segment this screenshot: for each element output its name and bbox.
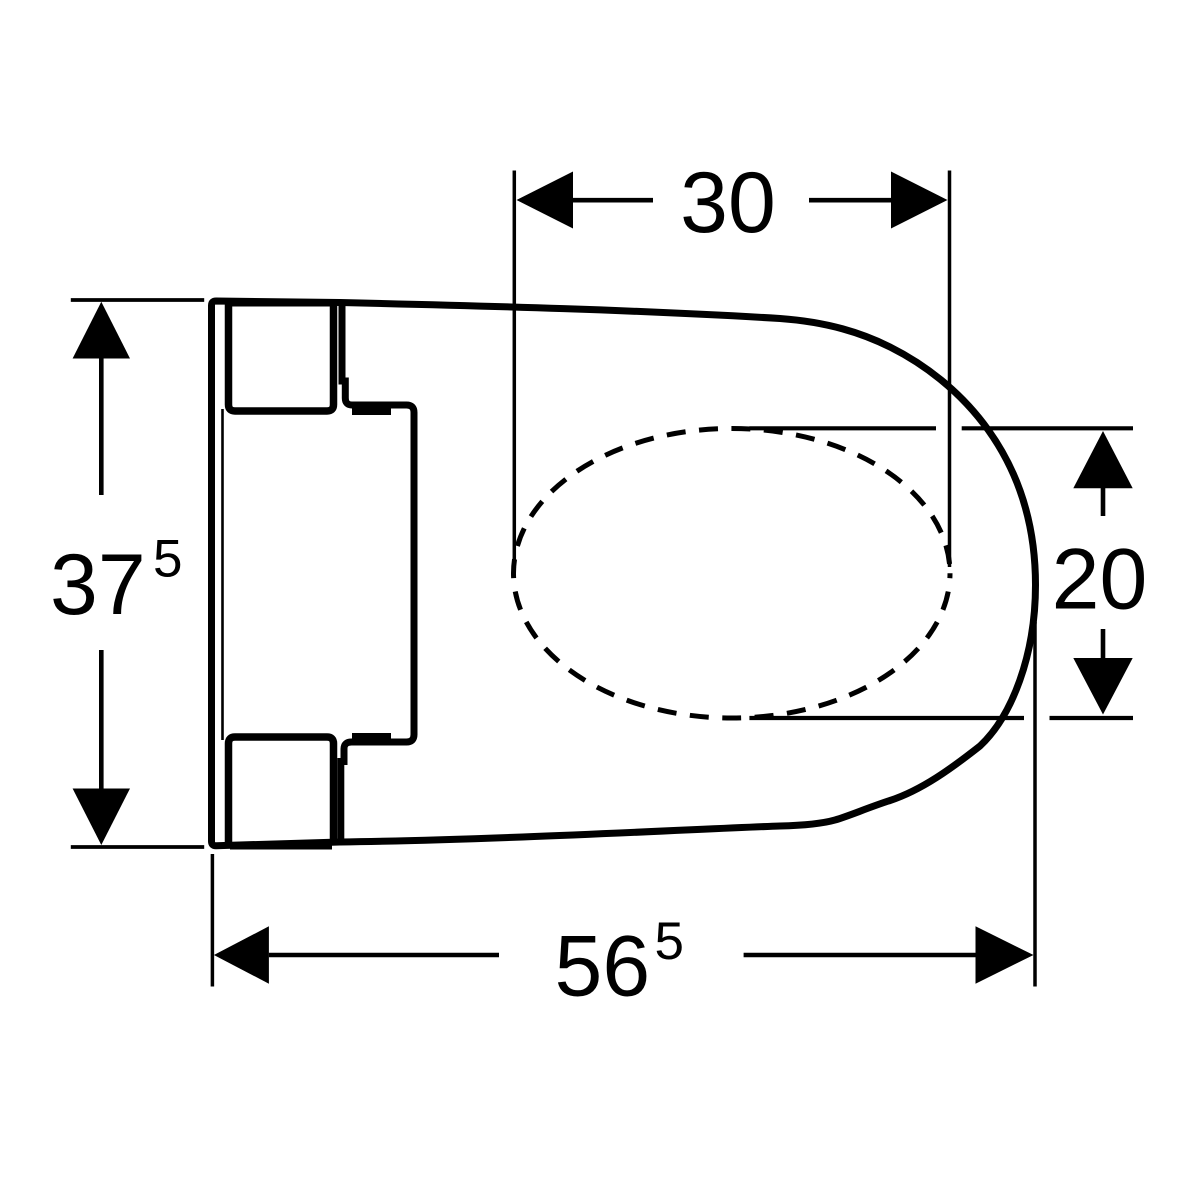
- bowl outline: [212, 301, 1036, 846]
- svg-text:20: 20: [1052, 532, 1148, 628]
- dim 56.5 left tail: [269, 953, 499, 958]
- svg-text:56: 56: [555, 919, 651, 1015]
- dashed bowl ellipse: [514, 429, 951, 719]
- svg-text:37: 37: [50, 537, 146, 633]
- dim 37.5 top extension line: [71, 298, 204, 302]
- dim 20 top line left part: [749, 426, 936, 430]
- dim 30 right arrow: [891, 172, 948, 229]
- svg-text:5: 5: [655, 912, 684, 971]
- dim 37.5 up arrow: [73, 302, 130, 359]
- svg-text:30: 30: [680, 155, 776, 251]
- dim 37.5 lower shaft: [99, 650, 104, 789]
- top-left box top edge thickening: [230, 302, 332, 307]
- dim 37.5 bottom extension line: [71, 845, 204, 849]
- dim 56.5 right arrow: [976, 926, 1034, 983]
- dim 20 down arrow: [1073, 658, 1132, 715]
- dim 56.5 left arrow: [214, 926, 269, 983]
- dim 37.5 upper shaft: [99, 358, 104, 495]
- dim 30 left arrow: [517, 172, 574, 229]
- middle box bottom edge: [352, 733, 391, 739]
- dim 20 bottom line right part: [1050, 716, 1134, 720]
- inner thin line: [221, 409, 224, 740]
- dim 20 upper tail: [1101, 488, 1106, 516]
- dim 30 right tail: [809, 198, 891, 203]
- dim 56.5 right tail: [744, 953, 976, 958]
- dim 30 left tail: [573, 198, 653, 203]
- top-left box: [229, 304, 334, 411]
- dim 56.5 right extension line: [1033, 622, 1037, 987]
- dim 30 right extension line: [948, 171, 952, 568]
- dim 20 up arrow: [1073, 431, 1132, 488]
- middle box right edge with steps: [341, 304, 414, 840]
- bottom-left box: [229, 737, 334, 843]
- dim 30 left extension line: [513, 171, 517, 569]
- bottom-left box bottom edge thickening: [230, 845, 332, 850]
- dim 20 top line right part: [962, 426, 1133, 430]
- dim 56.5 left extension line: [211, 854, 215, 987]
- middle box top edge: [352, 408, 391, 415]
- dim 37.5 down arrow: [73, 789, 130, 846]
- svg-text:5: 5: [153, 530, 182, 589]
- dim 20 bottom line left part: [749, 716, 1024, 720]
- dim 20 lower tail: [1101, 629, 1106, 658]
